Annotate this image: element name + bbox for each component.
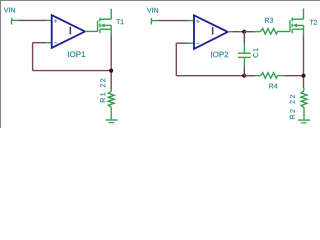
T2 source horizontal xyxy=(292,28,303,30)
wire junction to R3 xyxy=(244,31,255,33)
transistor T2 xyxy=(290,8,304,35)
wire feedback to - input xyxy=(33,42,47,44)
label R4 xyxy=(269,84,277,89)
label R3 xyxy=(265,18,273,23)
resistor R4 xyxy=(255,73,284,79)
op-amp IOP2 plus mark xyxy=(196,19,200,23)
node VIN (right) label xyxy=(147,8,158,13)
label T2 xyxy=(310,20,317,25)
wire output to junction xyxy=(233,31,244,33)
wire op-amp output to T1 gate xyxy=(85,30,98,32)
wire T2 source down to R2 xyxy=(303,36,305,89)
resistor R2 xyxy=(301,88,307,120)
op-amp IOP1 minus mark xyxy=(54,42,57,44)
wire T1 source down to R1 xyxy=(110,36,112,91)
wire feedback horizontal to C1 node xyxy=(176,75,244,77)
transistor T1 xyxy=(98,9,112,36)
pin stub op-amp + input xyxy=(46,19,52,21)
label C1 xyxy=(253,48,258,57)
ground (right) xyxy=(298,120,310,123)
wire feedback vertical xyxy=(32,43,34,71)
T2 source lead down xyxy=(303,25,305,35)
junction dot T2 source/R4 xyxy=(301,74,305,78)
T2 channel dash 2 xyxy=(291,24,293,28)
junction dot C1 bottom xyxy=(242,74,246,78)
T2 drain horizontal xyxy=(292,18,303,20)
op-amp IOP1 plus mark xyxy=(54,19,58,23)
T1 bulk arrow line xyxy=(103,24,111,26)
resistor R3 xyxy=(255,29,290,35)
wire C1 node to R4 xyxy=(244,75,255,77)
wire feedback horizontal xyxy=(33,70,112,72)
T2 gate bar xyxy=(289,21,291,32)
port pin VIN (right) xyxy=(151,18,158,25)
pin stub op-amp - input xyxy=(46,42,52,44)
frame border top xyxy=(0,0,320,2)
wire R4 to source node xyxy=(284,75,304,77)
label R2 22 xyxy=(290,95,295,119)
wire VIN to op-amp + input (right) xyxy=(158,20,188,22)
label R1 22 xyxy=(100,79,105,103)
T1 drain lead up xyxy=(110,9,112,20)
resistor R1 xyxy=(108,89,114,119)
op-amp IOP1 triangle xyxy=(52,15,85,48)
T1 channel dash 2 xyxy=(99,24,101,28)
label IOP1 xyxy=(68,51,85,57)
T1 source lead down xyxy=(110,25,112,35)
T2 channel dash 3 xyxy=(291,29,293,33)
junction dot T1 source/feedback xyxy=(109,69,113,73)
T1 arrow head xyxy=(100,24,105,28)
T2 channel dash 1 xyxy=(291,18,293,22)
frame border left xyxy=(0,0,2,128)
op-amp IOP1 letter I xyxy=(70,27,72,35)
T1 gate bar xyxy=(97,21,99,32)
pin stub op-amp + input (right) xyxy=(188,20,194,22)
wire C1 bottom to node xyxy=(243,67,245,75)
junction dot output node xyxy=(242,30,246,34)
capacitor C1 xyxy=(238,43,251,67)
wire output junction down to C1 xyxy=(243,32,245,44)
T2 arrow head xyxy=(293,24,298,28)
port pin VIN (left) xyxy=(12,18,19,25)
ground (left) xyxy=(106,120,118,123)
op-amp IOP2 triangle xyxy=(194,15,228,49)
wire op-amp output stub (right) xyxy=(228,31,233,33)
op-amp IOP2 minus mark xyxy=(196,42,199,44)
wire feedback vertical (right) xyxy=(175,43,177,75)
T1 channel dash 3 xyxy=(99,29,101,33)
pin stub op-amp - input (right) xyxy=(188,42,194,44)
label IOP2 xyxy=(211,52,228,58)
wire feedback to - input (right) xyxy=(176,42,188,44)
label T1 xyxy=(116,19,123,24)
wire VIN to op-amp + input xyxy=(19,19,47,21)
T2 bulk arrow line xyxy=(295,24,303,26)
T1 drain horizontal xyxy=(100,18,111,20)
T2 drain lead up xyxy=(303,8,305,19)
T1 channel dash 1 xyxy=(99,18,101,22)
T1 source horizontal xyxy=(100,28,111,30)
op-amp IOP2 letter I xyxy=(212,27,214,35)
node VIN (left) label xyxy=(4,8,15,13)
